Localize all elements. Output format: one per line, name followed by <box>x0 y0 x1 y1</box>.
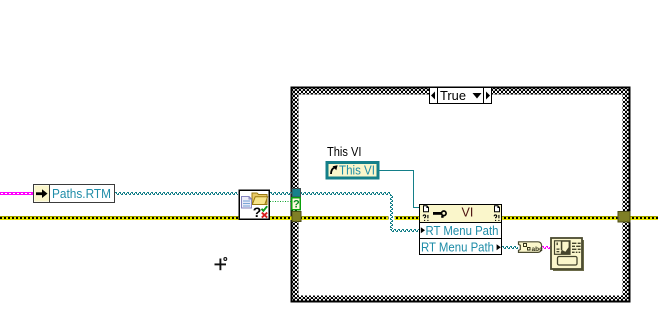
case structure <box>292 88 630 302</box>
property node header icons <box>423 206 499 221</box>
svg-text:This VI: This VI <box>327 144 362 159</box>
constant Paths.RTM <box>34 185 115 203</box>
svg-text:Paths.RTM: Paths.RTM <box>52 186 111 201</box>
svg-text:?: ? <box>293 198 300 210</box>
svg-text:abc: abc <box>532 246 544 253</box>
svg-text:?: ? <box>253 204 262 220</box>
label This VI <box>327 144 362 159</box>
wire string to menu VI <box>542 247 552 249</box>
property node class name VI <box>462 206 474 220</box>
cursor crosshair <box>215 258 227 271</box>
wire VI refnum <box>379 171 419 208</box>
tunnel error left <box>292 212 301 222</box>
svg-text:True: True <box>440 88 466 103</box>
svg-text:RT Menu Path: RT Menu Path <box>426 223 499 238</box>
case selector terminal <box>292 198 300 211</box>
wire error cluster <box>0 216 658 220</box>
property RT Menu Path (read) <box>421 223 499 238</box>
constant This VI refnum <box>327 163 378 179</box>
tunnel path teal <box>292 189 301 198</box>
svg-text:VI: VI <box>462 206 474 220</box>
property RT Menu Path (write) <box>421 239 501 254</box>
wire boolean <box>270 201 292 203</box>
property node VI <box>420 205 502 255</box>
svg-text:RT Menu Path: RT Menu Path <box>421 239 494 254</box>
wire path inside case <box>300 193 390 195</box>
subVI set run-time menu <box>551 238 584 271</box>
wire path property output <box>502 247 518 249</box>
wire path file check to tunnel <box>270 193 292 195</box>
node Check If File Or Folder Exists <box>239 190 269 220</box>
wire string input <box>0 192 34 195</box>
wire path Paths.RTM to file check <box>115 193 238 195</box>
node Path To String <box>519 242 544 253</box>
case selector label True <box>430 88 492 104</box>
tunnel error right <box>618 212 630 223</box>
svg-text:This VI: This VI <box>339 163 375 178</box>
